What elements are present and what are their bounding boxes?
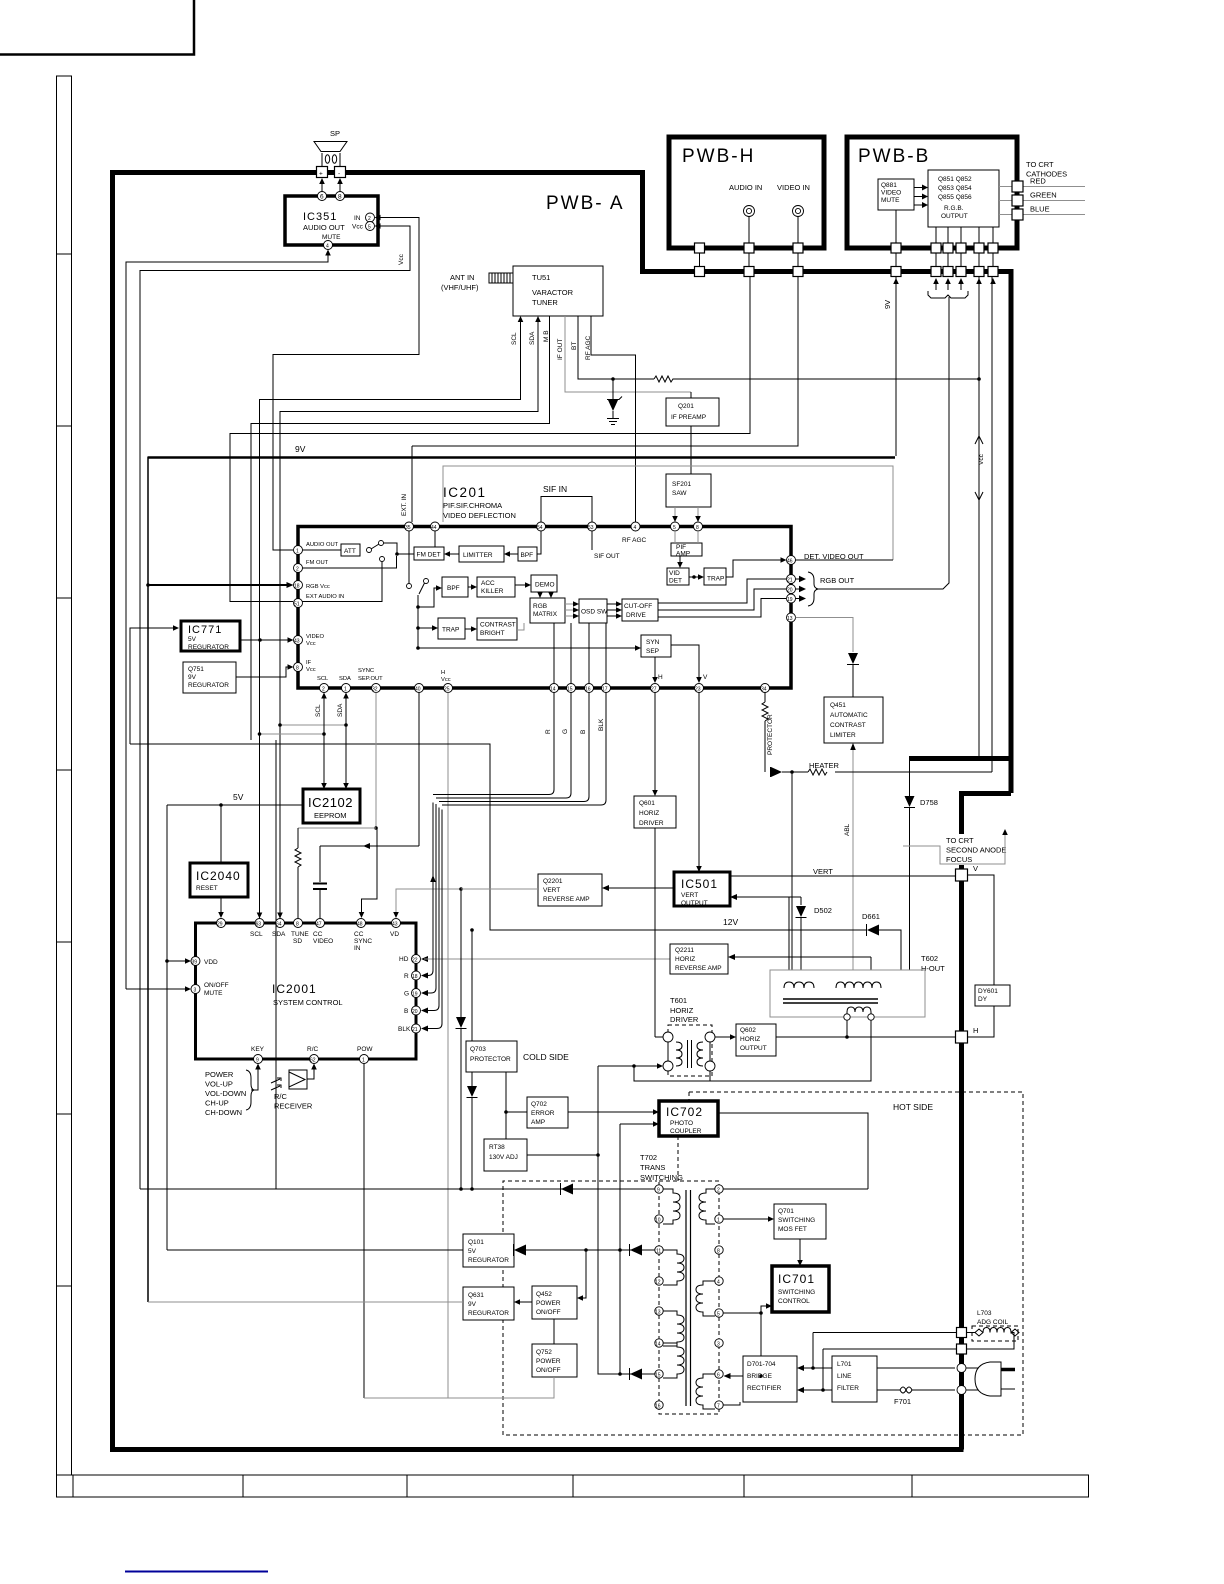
resistor to TUNE SD — [295, 828, 301, 918]
degauss coil L703 ADG COIL — [967, 1310, 1019, 1349]
svg-text:FM DET: FM DET — [417, 552, 441, 559]
diode D661 on 12V line — [862, 912, 901, 970]
svg-text:SYN: SYN — [646, 639, 660, 646]
svg-text:1: 1 — [362, 1058, 365, 1064]
svg-text:VIDEO: VIDEO — [881, 190, 901, 197]
coil 13-14 — [663, 1311, 684, 1346]
svg-text:D701-704: D701-704 — [747, 1361, 776, 1368]
wire into IC771 — [130, 625, 179, 744]
svg-text:IF: IF — [306, 660, 312, 666]
svg-text:VDD: VDD — [204, 959, 218, 966]
SAW filter SF201 — [666, 474, 711, 507]
svg-text:SECOND ANODE: SECOND ANODE — [946, 846, 1006, 855]
speaker terminal - — [335, 167, 346, 178]
svg-text:4: 4 — [717, 1280, 720, 1286]
left pin 3 ON/OFF MUTE — [126, 982, 229, 997]
svg-text:18: 18 — [294, 584, 300, 590]
right pin 19 G — [404, 804, 436, 998]
wire TRAP to pin 46 — [726, 560, 781, 577]
svg-text:POWER: POWER — [536, 1300, 561, 1307]
svg-text:R: R — [545, 729, 552, 734]
right pin 18 R — [404, 803, 433, 981]
svg-text:BRIGHT: BRIGHT — [480, 630, 505, 637]
block RGB MATRIX — [530, 598, 565, 623]
switching mosfet Q701 — [724, 1204, 827, 1266]
svg-text:23: 23 — [695, 687, 701, 693]
svg-text:OUTPUT: OUTPUT — [941, 213, 968, 220]
svg-text:MOS FET: MOS FET — [778, 1226, 807, 1233]
switch audio — [303, 541, 415, 602]
svg-text:KILLER: KILLER — [481, 588, 504, 595]
wire EXT IN from video line — [411, 446, 413, 522]
svg-text:VD: VD — [390, 931, 399, 938]
hot side dashed boundary — [503, 1092, 1023, 1435]
diode on heater line — [771, 767, 783, 777]
wires matrix/osd to bottom pins 14-17 — [554, 623, 606, 684]
svg-text:T602: T602 — [921, 954, 938, 963]
svg-text:1: 1 — [344, 687, 347, 693]
bottom pins — [320, 684, 329, 693]
svg-text:16: 16 — [655, 1404, 661, 1410]
wire stubs between PWB-B and PWB-A — [896, 253, 993, 266]
svg-text:35: 35 — [405, 525, 411, 531]
svg-text:R.G.B.: R.G.B. — [944, 205, 964, 212]
svg-text:HORIZ: HORIZ — [675, 956, 695, 963]
svg-text:DRIVE: DRIVE — [626, 612, 647, 619]
svg-text:15: 15 — [567, 687, 573, 693]
svg-text:RGB Vcc: RGB Vcc — [306, 584, 330, 590]
transistor block Q851-Q856 R.G.B. OUTPUT — [928, 170, 999, 227]
svg-text:11: 11 — [656, 1249, 661, 1255]
svg-text:RECTIFIER: RECTIFIER — [747, 1385, 782, 1392]
vert output IC501 — [674, 872, 730, 907]
block DEMO — [515, 575, 557, 598]
svg-text:IN: IN — [354, 945, 361, 952]
pin 5 — [671, 522, 680, 531]
svg-text:ERROR: ERROR — [531, 1110, 555, 1117]
svg-text:1: 1 — [717, 1218, 720, 1224]
svg-text:VERT: VERT — [813, 867, 833, 876]
left pin 1 AUDIO OUT — [294, 546, 303, 555]
svg-text:HORIZ: HORIZ — [740, 1036, 760, 1043]
pin 4 MUTE — [324, 241, 333, 250]
svg-text:PWB-B: PWB-B — [858, 146, 930, 167]
wire 9V rail to PWB-B (thick) — [148, 277, 896, 458]
svg-text:REGURATOR: REGURATOR — [188, 644, 229, 651]
pin 20 — [787, 585, 796, 594]
wire BT from tuner — [571, 316, 654, 379]
pin 46 — [787, 556, 796, 565]
svg-text:BLUE: BLUE — [1030, 205, 1050, 214]
block TRAP left — [416, 618, 465, 639]
eeprom IC2102 — [303, 789, 360, 823]
wires SF201 to IC201 pins 5,8 — [672, 507, 701, 522]
AC line to plug — [877, 1367, 955, 1369]
block VID DET — [667, 556, 689, 585]
svg-text:62: 62 — [310, 1058, 316, 1064]
pin 54 — [537, 522, 546, 531]
svg-text:53: 53 — [588, 525, 594, 531]
svg-text:5: 5 — [673, 525, 676, 531]
svg-text:DET: DET — [669, 578, 682, 585]
ADG connector squares — [957, 1328, 967, 1338]
block PIF AMP — [671, 531, 702, 558]
svg-text:LIMITTER: LIMITTER — [463, 552, 493, 559]
svg-text:PWB-H: PWB-H — [682, 146, 755, 167]
svg-text:SDA: SDA — [272, 931, 286, 938]
left pin 2 FM OUT — [294, 564, 303, 573]
svg-text:IC201: IC201 — [443, 485, 487, 500]
svg-text:IF PREAMP: IF PREAMP — [671, 414, 706, 421]
svg-text:Q101: Q101 — [468, 1239, 484, 1246]
svg-text:H: H — [658, 674, 663, 681]
svg-text:GREEN: GREEN — [1030, 191, 1057, 200]
svg-text:OUTPUT: OUTPUT — [681, 900, 708, 907]
driver transformer T601 — [663, 996, 715, 1076]
wire protector down to T602 — [791, 772, 793, 970]
svg-text:VERT: VERT — [543, 887, 560, 894]
connector squares PWB-A top edge (from PWB-B) — [891, 267, 901, 277]
svg-text:DY: DY — [978, 996, 988, 1003]
block TRAP right — [689, 568, 726, 585]
svg-text:SYSTEM CONTROL: SYSTEM CONTROL — [273, 998, 343, 1007]
svg-text:MATRIX: MATRIX — [533, 611, 558, 618]
svg-text:9V: 9V — [468, 1301, 477, 1308]
svg-text:63: 63 — [256, 922, 262, 928]
svg-text:SEP.OUT: SEP.OUT — [358, 676, 383, 682]
IC201 PIF.SIF.CHROMA VIDEO DEFLECTION main IC frame — [298, 485, 791, 688]
svg-text:32: 32 — [372, 687, 378, 693]
wire 5V rail to Q101 — [167, 1249, 463, 1251]
svg-text:R/C: R/C — [307, 1046, 319, 1053]
pin 21 — [787, 575, 796, 584]
label PROTECTOR + resistor from pin 34 — [762, 693, 774, 773]
svg-text:IC501: IC501 — [681, 877, 718, 891]
svg-text:MUTE: MUTE — [322, 234, 341, 241]
svg-text:RESET: RESET — [196, 885, 218, 892]
svg-text:Q853 Q854: Q853 Q854 — [938, 185, 972, 192]
wire V pin23 to IC501 — [696, 693, 702, 873]
power switch Q752 — [364, 1319, 577, 1398]
contrast limiter Q451 — [824, 697, 883, 743]
wire IC771 to pin 43 — [240, 637, 294, 643]
svg-text:COLD SIDE: COLD SIDE — [523, 1052, 569, 1062]
svg-text:POWER: POWER — [536, 1358, 561, 1365]
svg-text:H: H — [441, 670, 445, 676]
block LIMITTER — [444, 546, 504, 562]
wire SDA from tuner — [280, 316, 541, 918]
svg-text:VID: VID — [669, 570, 680, 577]
svg-text:9V: 9V — [295, 444, 306, 454]
svg-text:13: 13 — [787, 616, 793, 622]
wire SDA gray link — [278, 723, 348, 727]
label Vcc vertical arrows — [975, 436, 985, 500]
regulator Q631 9V — [148, 1287, 514, 1320]
svg-text:47: 47 — [316, 922, 322, 928]
wires cut-off drive to pins 21,20,19 — [658, 579, 786, 617]
svg-text:RECEIVER: RECEIVER — [274, 1102, 313, 1111]
svg-text:(VHF/UHF): (VHF/UHF) — [441, 283, 479, 292]
wire PWB-B to heater — [991, 277, 993, 772]
svg-text:TO CRT: TO CRT — [1026, 160, 1054, 169]
svg-text:46: 46 — [787, 559, 793, 565]
right pin 20 B — [404, 808, 439, 1016]
svg-text:REVERSE AMP: REVERSE AMP — [543, 896, 590, 903]
block OSD SW — [565, 599, 608, 623]
svg-text:Q451: Q451 — [830, 702, 846, 709]
svg-text:LIMITER: LIMITER — [830, 732, 856, 739]
svg-text:RGB: RGB — [533, 603, 547, 610]
connector jack AUDIO IN — [744, 206, 755, 217]
svg-text:Q751: Q751 — [188, 666, 204, 673]
photo coupler IC702 — [659, 1101, 718, 1136]
svg-text:CH-UP: CH-UP — [205, 1099, 229, 1108]
driver Q601 HORIZ DRIVER — [634, 693, 676, 1038]
svg-text:SYNC: SYNC — [358, 668, 374, 674]
svg-text:22: 22 — [412, 958, 418, 964]
flyback transformer T602 — [770, 954, 945, 1020]
connector squares PWB-A top edge (from PWB-H) — [695, 267, 705, 277]
svg-text:ANT IN: ANT IN — [450, 273, 474, 282]
svg-text:Q855 Q856: Q855 Q856 — [938, 194, 972, 201]
secondary coil 2-1 — [699, 1189, 715, 1224]
svg-text:D661: D661 — [862, 912, 880, 921]
svg-text:REVERSE AMP: REVERSE AMP — [675, 965, 722, 972]
left pin 18 RGB Vcc — [294, 581, 303, 590]
svg-text:EXT AUDIO IN: EXT AUDIO IN — [306, 594, 344, 600]
svg-text:VIDEO DEFLECTION: VIDEO DEFLECTION — [443, 511, 516, 520]
block FM DET — [414, 531, 444, 560]
svg-text:DRIVER: DRIVER — [639, 820, 664, 827]
svg-text:TUNER: TUNER — [532, 298, 558, 307]
svg-text:2: 2 — [296, 567, 299, 573]
svg-text:Q601: Q601 — [639, 800, 655, 807]
svg-text:IC351: IC351 — [303, 211, 337, 223]
switching control IC701 — [772, 1266, 829, 1312]
wire MB rail lower — [275, 740, 277, 1189]
wire IC702 feedback to hot side — [718, 1113, 868, 1189]
svg-text:CC: CC — [354, 931, 364, 938]
wire Q703 sense from 12V — [470, 928, 474, 1041]
svg-text:VOL-UP: VOL-UP — [205, 1080, 233, 1089]
svg-text:POW: POW — [357, 1046, 373, 1053]
svg-text:Vcc: Vcc — [352, 224, 364, 231]
svg-text:BLK: BLK — [398, 1026, 411, 1033]
wire SIF IN bar to pins 54,53 — [541, 497, 592, 523]
svg-text:CH-DOWN: CH-DOWN — [205, 1108, 242, 1117]
wires Q881 to RGB output (3 arrows) — [914, 185, 928, 209]
wire IF OUT from tuner — [557, 316, 691, 392]
attenuator ATT — [303, 544, 361, 556]
svg-text:FOCUS: FOCUS — [946, 855, 972, 864]
svg-text:L703: L703 — [977, 1310, 992, 1317]
deflection yoke DY601 — [968, 875, 1011, 1037]
svg-text:AUTOMATIC: AUTOMATIC — [830, 712, 868, 719]
fuse F701 — [877, 1387, 955, 1406]
svg-text:ATT: ATT — [344, 548, 356, 555]
svg-text:Vcc: Vcc — [306, 641, 316, 647]
svg-text:4: 4 — [634, 525, 637, 531]
brace RGB OUT — [796, 578, 801, 580]
error amp Q702 — [504, 1072, 568, 1139]
connector H on CRT line — [956, 1026, 979, 1043]
svg-text:130V ADJ: 130V ADJ — [489, 1154, 518, 1161]
svg-text:PROTECTOR: PROTECTOR — [767, 714, 774, 755]
svg-text:19: 19 — [412, 992, 418, 998]
svg-text:SF201: SF201 — [672, 481, 692, 488]
svg-text:IC2102: IC2102 — [308, 795, 353, 810]
svg-text:SIF OUT: SIF OUT — [594, 553, 620, 560]
bottom ruler strip — [57, 1475, 1089, 1497]
svg-text:Q602: Q602 — [740, 1027, 756, 1034]
AC plug — [966, 1362, 1015, 1396]
IC351 AUDIO OUT — [285, 196, 378, 245]
svg-text:SWITCHING: SWITCHING — [778, 1289, 815, 1296]
svg-text:SDA: SDA — [529, 331, 536, 345]
svg-text:CONTRAST: CONTRAST — [830, 722, 866, 729]
svg-text:D758: D758 — [920, 798, 938, 807]
regulator Q101 5V — [463, 1234, 514, 1267]
svg-text:-: - — [338, 171, 340, 178]
svg-text:TU51: TU51 — [532, 273, 550, 282]
wire RF AGC from tuner — [585, 316, 636, 522]
switch ext video — [407, 531, 429, 648]
svg-text:64: 64 — [276, 922, 282, 928]
svg-text:EEPROM: EEPROM — [314, 811, 347, 820]
svg-text:CUT-OFF: CUT-OFF — [624, 603, 652, 610]
svg-text:6: 6 — [320, 194, 324, 201]
arrows up into right connectors — [976, 278, 982, 284]
wire RGB OUT to PWB-B — [816, 297, 949, 589]
wire pin5 to IC701 — [724, 1303, 773, 1376]
svg-text:VIDEO: VIDEO — [306, 634, 325, 640]
left border bar with segment ticks — [57, 76, 72, 1497]
svg-text:IC2040: IC2040 — [196, 869, 241, 883]
svg-text:B: B — [580, 730, 587, 734]
svg-text:Q701: Q701 — [778, 1208, 794, 1215]
wire 9V rail vertical — [146, 457, 293, 1303]
svg-text:RGB OUT: RGB OUT — [820, 576, 855, 585]
svg-text:AUDIO IN: AUDIO IN — [729, 183, 762, 192]
svg-text:POWER: POWER — [205, 1070, 234, 1079]
svg-text:HOT SIDE: HOT SIDE — [893, 1102, 933, 1112]
svg-text:BPF: BPF — [521, 552, 534, 559]
wire SDA IC201 to IC2102 — [337, 693, 349, 790]
coil 11-12 — [663, 1250, 684, 1285]
svg-text:21: 21 — [412, 1027, 418, 1033]
svg-text:OSD SW: OSD SW — [581, 609, 608, 616]
underbrace joining R G B wires — [928, 291, 968, 298]
wire jack stubs — [748, 217, 750, 245]
svg-text:Q452: Q452 — [536, 1291, 552, 1298]
left pin 39 VDD — [167, 957, 218, 967]
svg-text:4: 4 — [326, 244, 329, 250]
svg-text:TRAP: TRAP — [442, 627, 459, 634]
coil 4-5 — [696, 1281, 715, 1316]
protector Q703 — [466, 1041, 517, 1072]
wire 12V run — [130, 744, 867, 930]
wire VD feed (gray) — [393, 887, 538, 918]
connector squares PWB-H bottom edge — [695, 243, 705, 253]
svg-text:17: 17 — [602, 687, 608, 693]
svg-text:BT: BT — [571, 342, 578, 350]
svg-text:B: B — [404, 1008, 408, 1015]
svg-text:29: 29 — [217, 922, 223, 928]
IC2001 top pins — [217, 919, 226, 928]
pin 35 — [405, 522, 414, 531]
svg-text:F701: F701 — [894, 1397, 911, 1406]
svg-text:18: 18 — [412, 974, 418, 980]
regulator IC771 5V — [181, 621, 240, 651]
switching transformer T702 — [655, 1181, 723, 1414]
svg-text:Q702: Q702 — [531, 1101, 547, 1108]
svg-text:Q631: Q631 — [468, 1292, 484, 1299]
svg-text:G: G — [562, 729, 569, 734]
wire BLUE to CRT — [999, 205, 1085, 221]
wire DET VIDEO OUT to gray riser — [796, 559, 894, 561]
svg-text:SEP: SEP — [646, 648, 659, 655]
svg-text:FILTER: FILTER — [837, 1385, 859, 1392]
wire VD branch with diode to line — [456, 889, 467, 1191]
svg-text:CONTROL: CONTROL — [778, 1298, 810, 1305]
svg-text:5: 5 — [368, 225, 371, 231]
svg-text:T601: T601 — [670, 996, 687, 1005]
svg-text:3: 3 — [717, 1342, 720, 1348]
svg-text:IC771: IC771 — [188, 624, 222, 636]
PWB-A board border — [110, 173, 1013, 1450]
svg-text:RF AGC: RF AGC — [622, 537, 647, 544]
wire 5V rail — [165, 803, 303, 1250]
svg-text:Q851 Q852: Q851 Q852 — [938, 176, 972, 183]
svg-text:H: H — [973, 1026, 978, 1035]
wire SYN SEP H out — [652, 657, 663, 683]
svg-text:25: 25 — [444, 687, 450, 693]
wire PWB-B video down to BT junction — [978, 277, 980, 379]
svg-text:VERT: VERT — [681, 892, 698, 899]
svg-text:8: 8 — [338, 194, 342, 201]
svg-text:8: 8 — [296, 666, 299, 672]
transistor block Q881 VIDEO MUTE — [878, 179, 914, 210]
wire IC501 return with D502 — [730, 894, 832, 970]
svg-text:TRAP: TRAP — [707, 576, 724, 583]
right pin 22 HD — [399, 955, 670, 964]
wire bridge to pin 6 — [724, 1373, 763, 1379]
AC connector circles — [957, 1364, 966, 1373]
block ACC KILLER — [468, 577, 515, 597]
speaker SP — [314, 129, 347, 166]
wire SCL IC201 to IC2102 — [315, 693, 327, 790]
svg-text:TRANS: TRANS — [640, 1163, 665, 1172]
svg-text:Vcc: Vcc — [398, 253, 405, 265]
wire Q201 to SF201 — [690, 426, 692, 474]
line filter L701 — [832, 1356, 877, 1402]
wire 5V sense to IC702 — [618, 1121, 659, 1376]
svg-text:TO CRT: TO CRT — [946, 836, 974, 845]
arrows up into RGB connectors — [933, 278, 964, 290]
svg-text:AUDIO OUT: AUDIO OUT — [303, 223, 345, 232]
diode D758 — [904, 761, 938, 970]
svg-text:Q201: Q201 — [678, 403, 694, 410]
svg-text:54: 54 — [537, 525, 543, 531]
svg-text:SCL: SCL — [250, 931, 263, 938]
left pin 43 VIDEO Vcc — [294, 636, 303, 645]
svg-text:VARACTOR: VARACTOR — [532, 288, 574, 297]
heater line with resistor — [782, 761, 992, 775]
connector V on CRT line — [956, 864, 979, 881]
block BPF top — [504, 531, 541, 561]
svg-text:VIDEO: VIDEO — [313, 938, 333, 945]
svg-text:IC702: IC702 — [666, 1105, 703, 1119]
